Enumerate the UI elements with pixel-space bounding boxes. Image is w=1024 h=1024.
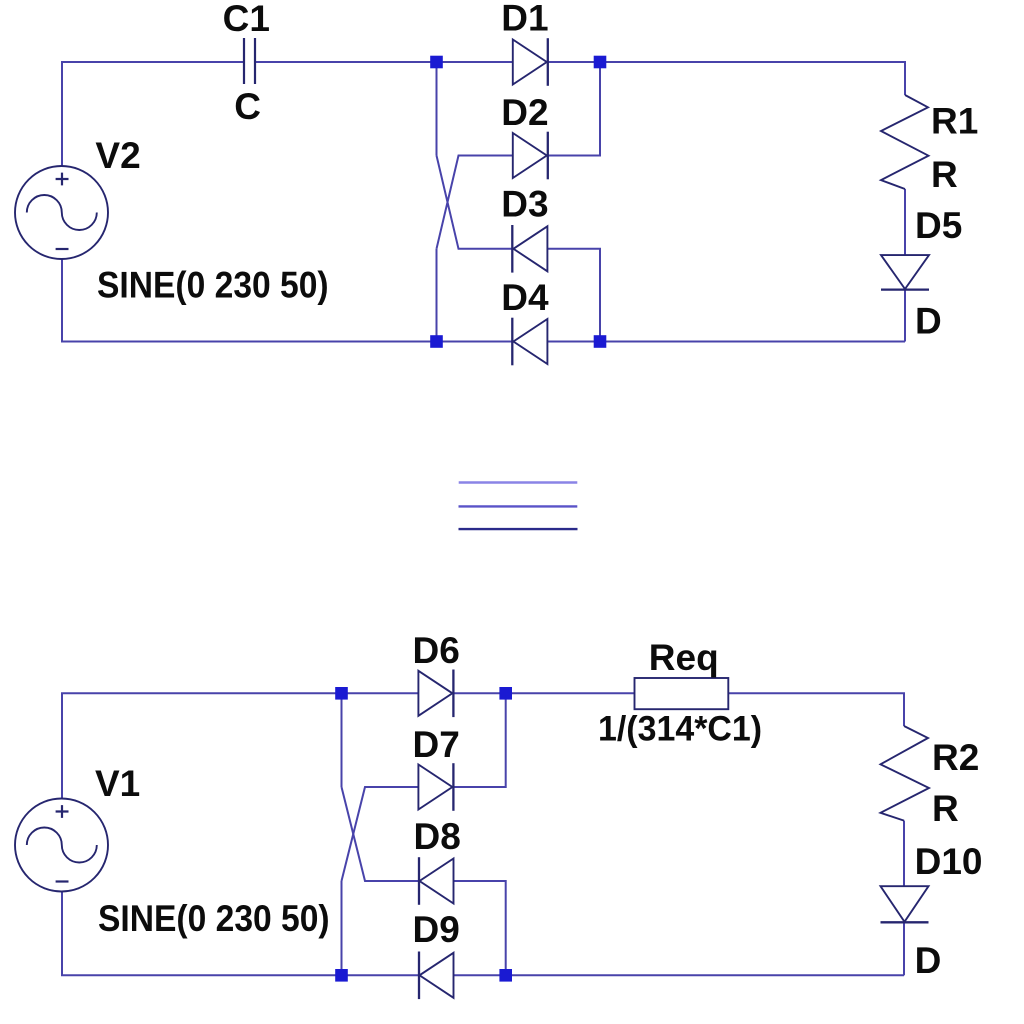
- svg-text:D3: D3: [501, 183, 548, 224]
- svg-text:R1: R1: [931, 101, 978, 142]
- svg-text:D9: D9: [413, 909, 460, 950]
- svg-text:V1: V1: [95, 763, 140, 804]
- svg-text:D: D: [915, 301, 942, 342]
- svg-text:R2: R2: [932, 737, 979, 778]
- svg-text:D: D: [915, 940, 942, 981]
- svg-text:D5: D5: [915, 205, 962, 246]
- svg-text:D6: D6: [413, 630, 460, 671]
- svg-text:D4: D4: [501, 277, 549, 318]
- svg-text:SINE(0 230 50): SINE(0 230 50): [97, 265, 329, 306]
- svg-text:SINE(0 230 50): SINE(0 230 50): [98, 898, 330, 939]
- svg-text:D1: D1: [501, 0, 548, 39]
- svg-text:Req: Req: [649, 637, 719, 678]
- svg-text:R: R: [931, 154, 958, 195]
- svg-text:C1: C1: [223, 0, 270, 39]
- svg-text:D8: D8: [414, 816, 461, 857]
- svg-text:C: C: [234, 86, 261, 127]
- svg-text:D7: D7: [413, 724, 460, 765]
- svg-text:R: R: [932, 788, 959, 829]
- svg-text:D2: D2: [501, 92, 548, 133]
- svg-text:D10: D10: [915, 841, 983, 882]
- svg-text:1/(314*C1): 1/(314*C1): [598, 709, 762, 749]
- svg-text:V2: V2: [95, 135, 140, 176]
